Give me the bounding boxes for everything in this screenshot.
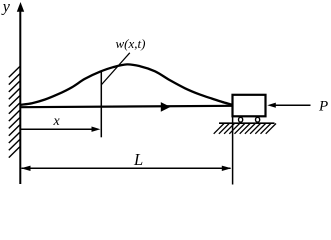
deflection curve w(x,t) (21, 64, 232, 104)
svg-text:x: x (53, 114, 61, 129)
axis arrowhead (161, 102, 171, 112)
wall hatching (9, 67, 20, 158)
leader line from label to curve (102, 53, 130, 85)
svg-text:y: y (1, 0, 11, 15)
vertical marker at x (100, 72, 102, 137)
extension line below block (232, 116, 234, 185)
dimension L left arrowhead (21, 166, 31, 171)
roller right (256, 117, 260, 122)
roller left (239, 117, 243, 122)
force P arrow line (273, 104, 311, 106)
block (sliding mass) (233, 95, 266, 117)
beam axis line (20, 106, 232, 107)
dimension x right arrowhead (92, 127, 101, 132)
y-axis arrowhead (17, 2, 24, 12)
svg-text:L: L (133, 150, 143, 169)
ground line (219, 122, 275, 124)
ground hatching (214, 124, 276, 134)
y-axis / wall vertical line (19, 9, 21, 184)
dimension line L (22, 167, 231, 169)
svg-text:w(x,t): w(x,t) (116, 36, 146, 51)
svg-text:P: P (318, 99, 328, 115)
dimension L right arrowhead (222, 166, 232, 171)
dimension line x (21, 128, 93, 130)
force P arrowhead (267, 103, 276, 108)
